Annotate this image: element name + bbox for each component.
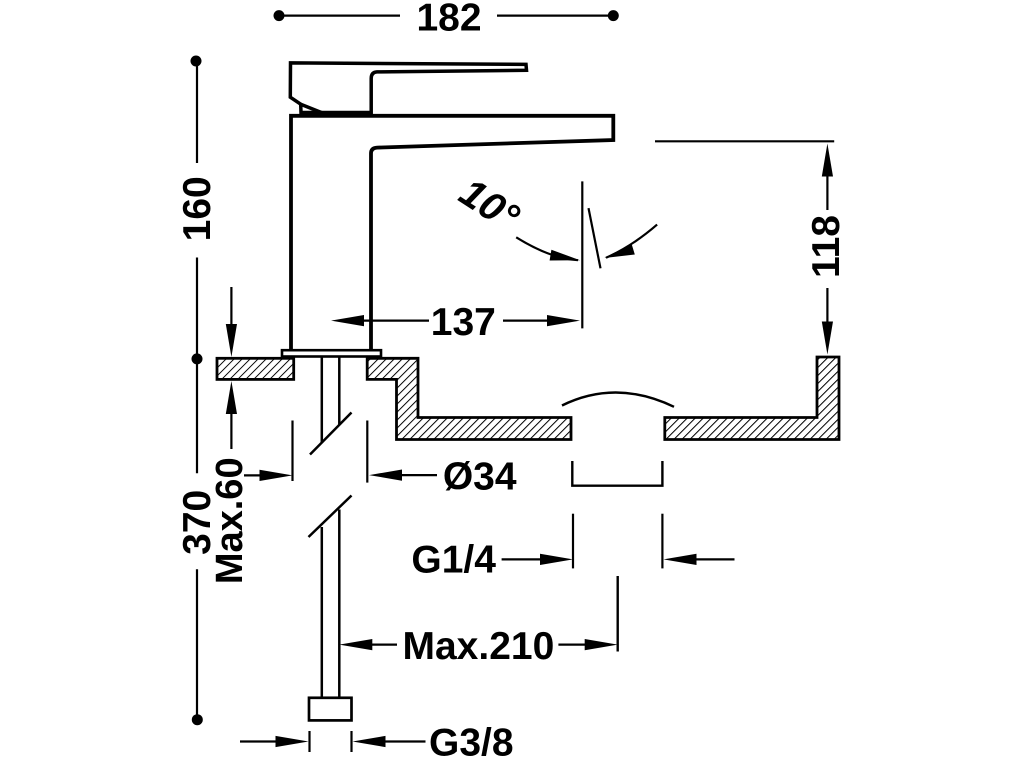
dimension G3/8: right extension tick — [350, 731, 352, 752]
svg-text:160: 160 — [176, 176, 219, 241]
dimension 182: line right segment — [497, 15, 613, 17]
dimension G1/4: right arrow line — [692, 558, 735, 560]
dimension G3/8: left extension tick — [308, 731, 310, 752]
10 degree left arc leader — [516, 237, 578, 260]
dimension 370: bottom dot — [192, 714, 203, 725]
dimension 160: line lower segment — [196, 258, 198, 359]
drain arc in basin bottom — [562, 393, 674, 407]
dimension 370: line lower segment — [196, 569, 198, 720]
dimension 182: right dot — [608, 10, 619, 21]
dimension 137: right arrowhead (right) — [547, 315, 580, 326]
shared dot between 160 and 370 — [192, 353, 203, 364]
dimension G3/8: right arrow line — [381, 740, 426, 742]
10 degree left arc arrowhead — [550, 250, 580, 261]
dimension 137: left arrowhead (left) — [331, 315, 364, 326]
dimension Max.210: left arrow line — [368, 643, 397, 645]
dimension G1/4: left extension line — [572, 514, 574, 569]
svg-text:G1/4: G1/4 — [411, 539, 496, 582]
dimension Max.210: right arrow line — [558, 643, 589, 645]
drain tailpipe line — [617, 576, 619, 652]
dimension O34: left arrowhead (right) — [260, 470, 293, 481]
faucet body and spout outline — [291, 116, 613, 350]
dimension O34: left extension line — [291, 421, 293, 482]
dimension Max.210: right arrowhead (right) — [585, 639, 618, 650]
faucet base plate — [282, 350, 381, 356]
supply pipe left line upper segment — [321, 357, 324, 443]
dimension G3/8: right arrowhead (left) — [353, 736, 386, 747]
dimension G1/4: left arrow line — [502, 558, 546, 560]
svg-text:10°: 10° — [452, 170, 528, 240]
supply pipe right line upper segment — [338, 357, 341, 426]
dimension 118: bottom arrowhead (down) — [822, 322, 833, 355]
dimension G1/4: right arrowhead (left) — [664, 554, 697, 565]
dimension Max.60: lower arrowhead (up) — [226, 381, 237, 414]
10 degree right arc leader — [606, 225, 657, 258]
dimension Max.60: upper line — [230, 287, 232, 328]
dimension O34: right arrow line — [398, 474, 437, 476]
10 degree right arc arrowhead — [605, 244, 635, 258]
svg-text:Max.210: Max.210 — [403, 625, 555, 668]
dimension G1/4: left arrowhead (right) — [540, 554, 573, 565]
supply pipe left line lower segment — [321, 527, 324, 699]
handle chamfer detail line — [301, 104, 322, 113]
tilted stream line (10 deg) — [589, 208, 601, 268]
dimension Max.60: upper arrowhead (down) — [226, 324, 237, 357]
dimension Max.210: left arrowhead (left) — [339, 639, 372, 650]
drain bracket below basin — [572, 461, 662, 486]
dimension 137: line right segment — [503, 320, 551, 322]
dimension 370: line upper segment — [196, 359, 198, 473]
supply hose end connector block — [309, 698, 352, 721]
supply pipe right line lower segment — [338, 510, 341, 699]
svg-text:182: 182 — [416, 0, 481, 40]
dimension 118: line lower segment — [826, 288, 828, 326]
faucet lever handle — [290, 63, 526, 113]
dimension O34: right extension line — [366, 421, 368, 483]
dimension Max.60: lower line — [230, 411, 232, 450]
basin right wall section (hatched L-shape) — [665, 357, 839, 440]
dimension 118: top extension line — [655, 140, 834, 142]
svg-text:118: 118 — [805, 215, 848, 278]
dimension 182: left dot — [274, 10, 285, 21]
dimension 137: line left segment — [360, 320, 429, 322]
countertop left section (hatched) — [217, 358, 294, 379]
svg-text:137: 137 — [431, 301, 496, 344]
dimension O34: left arrow line — [244, 474, 264, 476]
dimension 118: top arrowhead (up) — [822, 144, 833, 177]
dimension 160: line upper segment — [196, 61, 198, 163]
dimension 160: top dot — [191, 56, 202, 67]
svg-text:G3/8: G3/8 — [429, 722, 514, 765]
dimension G1/4: right extension line — [661, 514, 663, 569]
dimension 118: line upper segment — [826, 173, 828, 211]
dimension G3/8: left arrow line — [240, 740, 282, 742]
pipe break slash lower — [309, 496, 352, 538]
dimension G3/8: left arrowhead (right) — [276, 736, 309, 747]
dimension 182: line left segment — [279, 15, 400, 17]
water stream reference line — [581, 181, 583, 328]
pipe break slash upper — [310, 413, 352, 455]
countertop middle section with basin step (hatched) — [367, 358, 571, 439]
dimension O34: right arrowhead (left) — [369, 470, 402, 481]
svg-text:Ø34: Ø34 — [443, 455, 517, 498]
